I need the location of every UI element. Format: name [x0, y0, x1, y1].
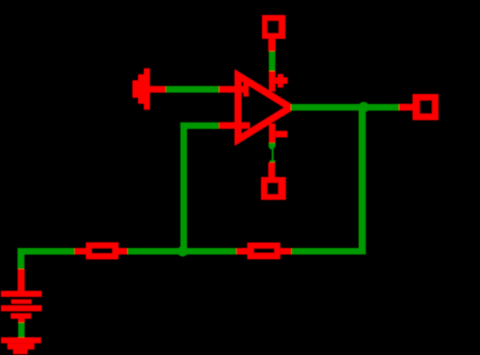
wire bottom left segment battery to R1 — [18, 248, 75, 255]
wire vertical feedback to inverting input — [180, 122, 187, 254]
ground GND2 bar medium — [7, 343, 34, 349]
battery BT1 plate long 2 — [1, 305, 42, 311]
port V+ square (top) — [262, 15, 285, 39]
op-amp U1 plus mark — [243, 81, 248, 96]
port V- square (bottom) — [261, 177, 286, 200]
port OUT pin lead — [399, 104, 413, 111]
port V- pin stem — [268, 162, 275, 177]
ground GND1 (left, rotated, on + input) bar long — [144, 68, 150, 110]
op-amp U1 V- minus mark — [275, 131, 287, 138]
wire battery negative to ground — [18, 322, 24, 338]
wire net IN+ from ground to op-amp — [165, 86, 220, 93]
battery BT1 plate short 1 — [11, 299, 32, 304]
battery BT1 bottom lead — [18, 319, 25, 323]
op-amp U1 non-inverting input pin — [219, 86, 245, 93]
wire bottom middle segment R1 to R2 — [127, 248, 236, 255]
wire output from op-amp apex — [291, 104, 399, 111]
op-amp U1 triangle body — [235, 69, 292, 146]
wire battery top vertical — [18, 248, 25, 269]
port OUT square (right) — [413, 94, 439, 120]
resistor R2 right lead — [280, 248, 291, 255]
ground GND1 bar medium — [138, 74, 144, 104]
wire op-amp V- pin to port (thick stub) — [269, 143, 276, 150]
op-amp U1 inverting input pin — [219, 122, 250, 129]
op-amp U1 V+ power pin — [269, 71, 275, 92]
ground GND2 (bottom) bar wide — [1, 337, 41, 343]
ground GND1 pin — [150, 86, 166, 93]
wire vertical right feedback drop — [359, 104, 366, 254]
ground GND1 bar short — [132, 80, 138, 98]
wire op-amp V- thin net — [272, 149, 274, 162]
op-amp U1 V- power pin — [269, 124, 275, 143]
node junction dot at bottom wire tee — [177, 246, 188, 257]
wire inverting input horizontal — [180, 122, 218, 128]
battery BT1 plate long 1 — [1, 291, 42, 297]
resistor R1 right lead — [118, 248, 127, 255]
resistor R2 body — [247, 243, 280, 260]
battery BT1 plate short 2 — [11, 313, 32, 319]
node junction dot at output feedback tee — [358, 102, 369, 113]
ground GND2 bar short — [13, 349, 28, 354]
resistor R2 left lead — [236, 248, 247, 255]
op-amp U1 V+ plus mark — [275, 77, 287, 84]
wire bottom right segment R2 to vertical — [291, 248, 362, 255]
wire op-amp V- tick at port pin — [270, 160, 276, 162]
port V+ pin stem — [268, 39, 275, 51]
resistor R1 body — [86, 242, 119, 259]
wire V+ port to op-amp top pin — [269, 51, 275, 72]
resistor R1 left lead — [75, 248, 87, 255]
op-amp U1 output stub — [287, 104, 292, 111]
battery BT1 top lead — [18, 269, 25, 291]
